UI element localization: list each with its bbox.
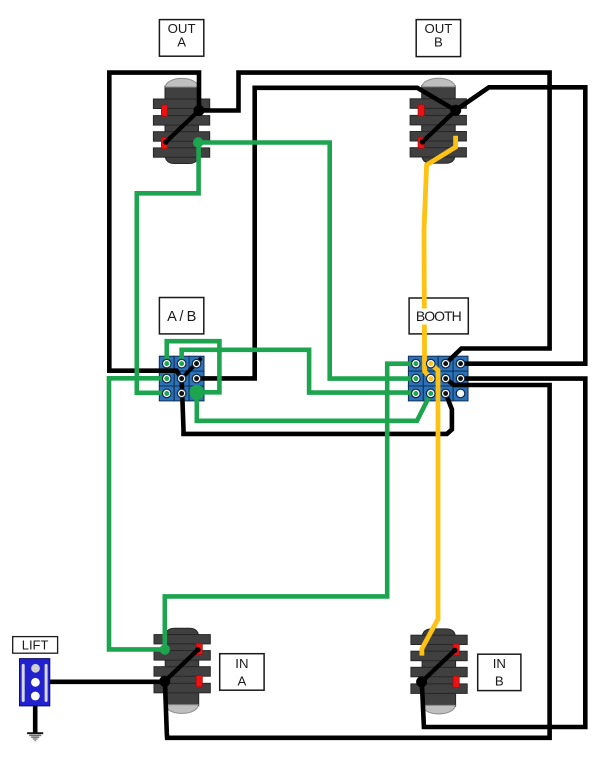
label box LIFT <box>13 637 58 654</box>
jack OUT A <box>153 78 209 163</box>
label text IN A <box>235 656 248 689</box>
svg-text:LIFT: LIFT <box>22 637 49 652</box>
label text OUT A <box>168 21 196 50</box>
label text OUT B <box>424 21 452 50</box>
wire yellow BOOTH row1 col2 to IN B tip <box>422 364 438 656</box>
wire yellow OUT B tip to BOOTH row2 col2 <box>424 136 456 379</box>
label text BOOTH with white backing <box>412 308 466 325</box>
node green OUT A tip <box>193 137 203 147</box>
svg-text:IN: IN <box>235 656 248 671</box>
jack OUT B <box>410 78 466 163</box>
wire black OUT B dot to A/B row2 col3 <box>197 88 456 379</box>
switch A/B lever <box>182 359 201 378</box>
label box OUT B <box>416 20 460 57</box>
wire green A/B row1 col1 to A/B row3 col3 junction <box>167 341 220 392</box>
switch A/B pads <box>162 359 200 397</box>
svg-text:IN: IN <box>493 656 506 671</box>
switch A/B grid <box>159 356 204 401</box>
ground symbol <box>27 733 43 740</box>
label box IN B <box>478 654 521 690</box>
svg-text:B: B <box>495 674 504 689</box>
wire green A/B row1 col2 to BOOTH row3 col1 <box>182 350 416 393</box>
wire green OUT A tip to BOOTH row2 col1 <box>198 143 416 379</box>
wire green IN A tip to BOOTH row1 col1 <box>165 364 416 650</box>
switch BOOTH pads <box>412 359 465 397</box>
label text IN B <box>493 656 506 689</box>
wire black LIFT middle pin to IN A dot <box>36 679 165 684</box>
component LIFT jumper block <box>20 659 50 706</box>
wire black OUT A sleeve to A/B middle pad (left loop) <box>109 73 199 379</box>
wire black BOOTH row2 col3 to IN A dot (bottom loop) <box>165 379 550 738</box>
label box A/B <box>159 298 203 334</box>
wire black A/B row2 col2 to BOOTH row3 col3 <box>182 379 452 434</box>
jack IN A <box>154 628 210 713</box>
wire black OUT A dot to BOOTH row1 col3 (top loop) <box>199 73 550 364</box>
jack IN B <box>411 629 467 714</box>
node green junction A/B row3 col3 <box>189 385 204 400</box>
svg-text:B: B <box>434 35 443 50</box>
node green IN A tip <box>160 644 170 654</box>
svg-text:BOOTH: BOOTH <box>416 308 461 324</box>
wire black BOOTH row2 col4 to IN B dot <box>422 379 585 727</box>
label box BOOTH <box>409 298 468 334</box>
label box OUT A <box>159 20 203 57</box>
svg-text:A: A <box>177 35 186 50</box>
wire black OUT B dot to BOOTH row1 col4 <box>456 87 586 363</box>
svg-text:A / B: A / B <box>167 309 196 325</box>
wire green OUT A tip to A/B row3 col1 <box>137 143 199 393</box>
wire green A/B junction to BOOTH row3 col2 <box>197 392 431 421</box>
label box IN A <box>220 654 264 691</box>
switch BOOTH grid <box>408 356 468 401</box>
svg-text:A: A <box>238 673 247 688</box>
wire black LIFT bottom pin to ground <box>33 696 38 734</box>
wire green A/B row2 col1 to IN A tip <box>109 378 167 649</box>
